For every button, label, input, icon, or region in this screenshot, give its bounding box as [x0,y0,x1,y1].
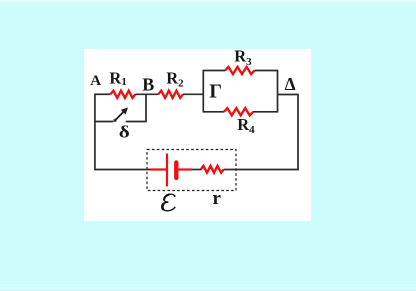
node B vertical wire [145,94,147,121]
resistor r (internal resistance) [201,166,224,173]
parallel box right edge [277,71,279,112]
svg-text:Γ: Γ [209,81,222,103]
battery long plate (positive) [166,154,168,187]
battery left red lead [150,168,166,170]
battery short thick plate (negative) [174,163,178,179]
switch delta blade [115,112,124,121]
wire R2 to node Gamma [183,93,203,95]
wire node Delta exit [278,94,299,96]
svg-text:Δ: Δ [285,74,296,94]
svg-text:A: A [90,73,101,89]
bottom wire between battery and r [192,169,202,171]
wire R1 to R2 through node B [135,93,158,95]
resistor R1 [111,91,136,98]
wire switch left segment [95,121,114,123]
svg-text:r: r [213,188,222,209]
svg-text:R4: R4 [237,115,255,136]
label script E (emf) [162,194,176,211]
resistor R4 [224,108,253,115]
wire switch right contact [126,121,147,123]
wire top-left segment A to R1 [95,93,111,95]
svg-text:R3: R3 [234,46,252,67]
battery right red lead [179,168,193,170]
left vertical wire [94,94,96,171]
svg-text:δ: δ [119,123,130,142]
switch delta pivot dot [113,119,116,122]
parallel box top edge wires [203,70,279,72]
parallel box left edge [202,71,204,112]
svg-text:R1: R1 [109,68,126,88]
resistor R2 [158,91,183,98]
switch delta arrowhead [121,107,128,114]
bottom wire left of battery [94,169,150,171]
bottom wire right of r [224,169,299,171]
parallel box bottom edge wires [203,111,279,113]
svg-text:R2: R2 [166,68,184,89]
svg-text:B: B [142,74,154,94]
right vertical wire [297,94,299,171]
battery dashed box [147,150,236,191]
resistor R3 [225,67,255,74]
